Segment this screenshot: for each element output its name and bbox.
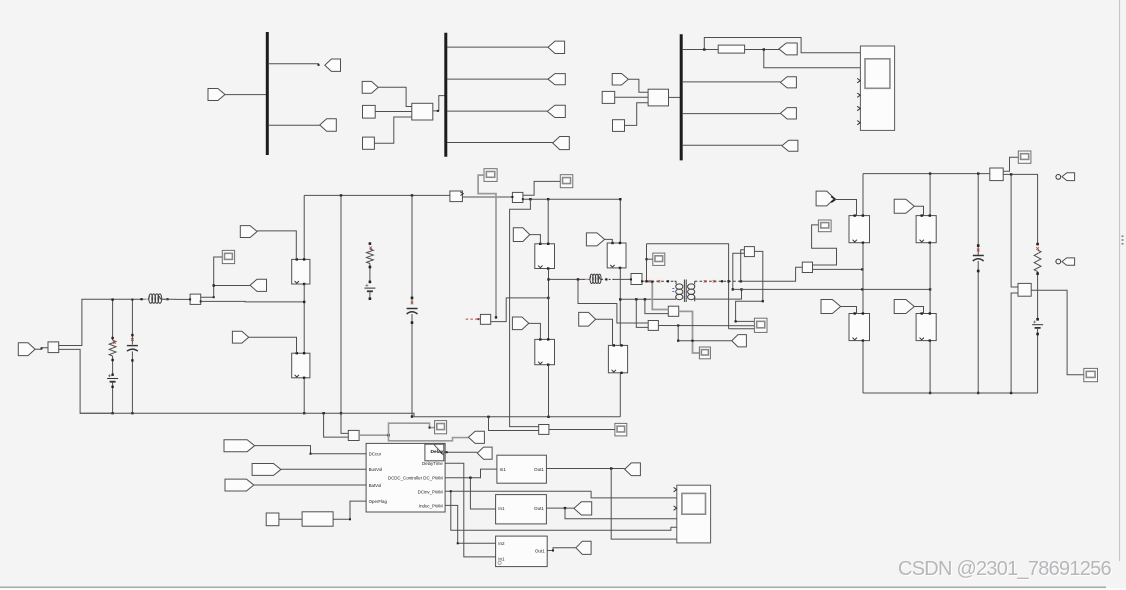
resistor R3 (load) (1034, 250, 1041, 272)
wire rail tap down to VM2 (510, 199, 539, 426)
scope U1 (top right) (857, 46, 894, 130)
wire loop to display D4 (647, 258, 653, 260)
from tag BatVol (225, 479, 254, 491)
wire bus B1 to goto tag A2 (268, 124, 320, 126)
svg-text:BatVol: BatVol (369, 483, 382, 488)
goto tag B3 (547, 105, 565, 117)
wire bottom rail to VM2 minus (489, 417, 539, 431)
unconnected block SC2b (613, 120, 625, 132)
wire CM5 signal to display D7 (1003, 157, 1018, 171)
svg-text:Out1: Out1 (534, 467, 544, 472)
display D3 (bridge current) (484, 169, 497, 182)
goto tag vprim (732, 335, 747, 347)
wire RC2 signal to display D6 (812, 225, 837, 265)
wire primary bottom to right leg (620, 298, 676, 300)
wire VM2b to phase wire (491, 297, 550, 322)
wire left leg mid (303, 284, 305, 353)
wire CM5 out to load (1003, 173, 1037, 244)
canvas bottom border (0, 586, 1106, 588)
goto tag C1 (779, 43, 797, 55)
wire gate Q5 (605, 239, 613, 243)
from tag gate Q6 (579, 312, 596, 326)
wire DC link vertical to VM1 (340, 195, 349, 433)
goto tag delay (477, 447, 492, 459)
svg-text:DCcur: DCcur (369, 451, 382, 456)
wire OperFlag to gain (279, 518, 302, 520)
bus bar B2 (444, 33, 447, 157)
battery E3 (1032, 321, 1043, 328)
wire gate Q8 (841, 307, 857, 314)
voltage measurement VM4 (648, 321, 658, 331)
wire VM3 out to display D8 (1031, 290, 1084, 375)
svg-text:DC_PWM: DC_PWM (423, 476, 443, 481)
wire from tag C-in to meas block MC (628, 79, 648, 92)
subsystem PWM1 (497, 455, 547, 483)
current measurement CM3 (630, 274, 643, 285)
goto tag B4 (553, 137, 570, 150)
wire VM3 plus (1011, 174, 1018, 287)
watermark CSDN (898, 558, 1111, 581)
svg-text:In2: In2 (498, 541, 505, 546)
wire bus B3 row2 to goto tag C2 (682, 81, 780, 83)
svg-text:DCinv_PWM: DCinv_PWM (418, 489, 443, 494)
wire bus B2 to goto tag B1 (447, 46, 548, 48)
wire primary bottom stub to VM5 (645, 299, 668, 313)
wire R1 to battery E1 (111, 356, 113, 376)
goto tag PWM1out (625, 463, 641, 476)
battery E2 floating (364, 284, 375, 291)
svg-text:In1: In1 (498, 556, 505, 561)
wire VM4 branch to goto tag (677, 326, 732, 342)
delay block (425, 444, 444, 461)
mosfet Q8 (849, 312, 870, 342)
dashed phase segment 2 (601, 278, 614, 280)
bus bar B1 (266, 32, 269, 155)
wire R2 to E2 (369, 264, 372, 284)
goto tag C2 (780, 77, 796, 88)
wire branch1 top (111, 298, 113, 340)
bus bar B3 (680, 34, 683, 160)
goto tag PWM2out (574, 502, 592, 515)
unconnected block SC1b (602, 91, 615, 103)
wire DC-link cap branch lower (411, 314, 414, 418)
wire PWM2 out to goto (546, 507, 574, 509)
wire DC_PWM branch to PWM2 (470, 478, 495, 509)
wire PWM2 out branch to scope (565, 508, 677, 519)
wire output cap branch upper (977, 174, 980, 256)
wire VM6 minus to return (732, 253, 745, 290)
wire PWM1 out to goto (546, 467, 624, 469)
display D10 (H-bridge current) (560, 175, 573, 188)
current measurement CM5 (990, 168, 1003, 181)
wire output cap branch lower (977, 261, 980, 394)
from tag gate Q1 (240, 226, 257, 238)
wire MC to bus B3 (669, 96, 682, 98)
wire BusVol to controller (281, 468, 366, 470)
wire VM2 out to display D9 (549, 429, 615, 431)
wire right-bridge left leg mid (862, 243, 864, 314)
wire RC2 out to left leg (813, 268, 864, 270)
wire CM1 signal up to display (201, 257, 223, 298)
wire R3 to battery E3 (1036, 272, 1039, 321)
svg-text:In1: In1 (498, 506, 505, 511)
svg-text:DCDC_Controller: DCDC_Controller (388, 475, 423, 480)
mosfet Q6 (608, 344, 627, 374)
wire CM2 signal to display D10 (523, 181, 560, 195)
wire G1 to controller (333, 501, 366, 520)
wire phase from left leg (549, 278, 584, 280)
from tag gate Q3 (513, 228, 530, 242)
wire VM4 out to scope U3 (658, 324, 754, 326)
output port circle 2 (1056, 259, 1061, 264)
wire bus B3 row4 to goto tag C4 (682, 144, 782, 146)
wire from tag Vdc1 to bus B1 (225, 94, 267, 96)
wire gate Q7 (835, 200, 857, 216)
wire bus B3 row1 to RLC block (682, 48, 718, 50)
from tag gate Q8 (821, 300, 841, 314)
wire right-bridge right leg mid (929, 243, 931, 314)
wire H-right leg mid (619, 268, 621, 346)
right bridge bottom rail (863, 392, 1038, 394)
from tag gate Q2 (232, 331, 248, 343)
subsystem PWM2 (496, 495, 547, 524)
voltage measurement VM3 (1018, 283, 1031, 296)
inductor L1 (140, 294, 168, 303)
goto tag A1 (325, 59, 341, 71)
wire VM1 out to goto tag vdc (389, 435, 469, 441)
wire DC_PWM to PWM1 (445, 469, 497, 479)
capacitor C1 (127, 338, 138, 351)
display D2 (DC link voltage) (435, 421, 447, 434)
svg-text:In1: In1 (500, 467, 507, 472)
wire PWM3 out to goto (547, 548, 576, 552)
from tag gate Q10 (894, 300, 914, 314)
from tag BusVol (252, 464, 281, 476)
measurement block RC2 (802, 262, 812, 272)
wire VM1 out to display D2 (389, 423, 435, 435)
wire PWM1 out branch to scope (611, 469, 677, 540)
measurement block MC (648, 89, 668, 106)
wire VM6 out to scope U3 (735, 251, 764, 322)
from tag gate Q7 (816, 191, 835, 206)
wire bus B3 row3 to goto tag C3 (682, 113, 780, 115)
svg-text:BusVol: BusVol (369, 467, 383, 472)
wire SC2b to MC (625, 103, 649, 126)
goto tag C3 (780, 108, 796, 119)
unconnected block SB2 (363, 137, 375, 149)
wire bottom rail to VM1 minus (324, 413, 349, 437)
display D5 (699, 347, 710, 359)
capacitor C2 (DC link) (407, 309, 418, 315)
wire gate Q10 (914, 307, 923, 314)
inline current block on rail (450, 191, 463, 202)
wire loop top (647, 244, 730, 329)
wire CM1 out to left leg mid (201, 300, 305, 303)
wire loop left vertical (645, 244, 647, 283)
wire bus B2 to goto tag B2 (447, 78, 548, 80)
unconnected block SB1 (363, 105, 376, 118)
voltage measurement VM6 (744, 247, 754, 257)
floating branch bottom port (369, 292, 372, 300)
wire D3 to VM2b (478, 175, 497, 319)
wire right-bridge right leg lower (929, 341, 931, 395)
wire phase to CM3 (614, 278, 631, 280)
wire from tag B-in to meas block MB (378, 87, 412, 106)
top rail of DC link (304, 194, 450, 196)
wire C1 to bottom rail (131, 351, 133, 414)
goto tag PWM3out (576, 541, 591, 554)
wire branch2 top (131, 299, 133, 345)
mosfet Q7 (849, 214, 870, 244)
right bridge top rail (863, 172, 990, 174)
wire loop into scope U3 (729, 328, 755, 330)
scope U3 (secondary) (754, 318, 767, 332)
mosfet Q9 (916, 214, 936, 244)
from tag B-in (362, 81, 378, 93)
voltage measurement VM2 (539, 425, 549, 435)
scope U2 (PWM) (674, 485, 711, 543)
bottom rail left part (80, 412, 620, 418)
svg-text:OperFlag: OperFlag (369, 499, 388, 504)
wire right-bridge right leg upper (929, 174, 931, 216)
wire DCinv_PWM to scope (445, 491, 677, 498)
mosfet Q4 (535, 338, 555, 366)
inductor L2 (leakage) (589, 274, 601, 283)
wire H-right leg upper (619, 198, 621, 243)
wire VS1- to bottom rail (59, 349, 113, 413)
wire right-bridge left leg lower (862, 341, 864, 393)
voltage measurement VM1 (348, 430, 359, 440)
wire primary bottom stub to VM4 (636, 299, 648, 327)
wire H-left leg upper (547, 199, 549, 244)
goto tag A2 (320, 119, 337, 131)
wire MB to bus B2 (433, 96, 445, 112)
svg-text:Out1: Out1 (535, 549, 545, 554)
wire loop row1 to scope in1 (704, 38, 860, 53)
voltage measurement VM5 (668, 306, 678, 316)
wire delay to goto tag (444, 451, 478, 453)
wire bus B2 to goto tag B4 (447, 142, 553, 144)
mosfet Q1 (292, 258, 310, 285)
wire RC1 to goto tag C1 (745, 48, 779, 50)
wire VS1+ to top rail (59, 299, 147, 345)
goto tag B2 (548, 74, 565, 85)
wire DCcur to controller (255, 446, 367, 455)
wire phase branch down (578, 279, 648, 323)
series RLC block RC1 (718, 45, 744, 53)
subsystem DCDC_Controller (366, 443, 445, 512)
wire gate Q3 (530, 235, 541, 244)
floating branch top port (369, 242, 372, 249)
svg-text:Out1: Out1 (534, 506, 544, 511)
display D1 (input current) (222, 250, 234, 263)
mosfet Q5 (607, 242, 626, 269)
wire load branch top (1036, 243, 1039, 250)
wire VM1 out (359, 434, 390, 437)
dashed primary wire (642, 280, 675, 283)
goto tag vdc (468, 431, 484, 443)
from tag DCcur (224, 440, 255, 452)
svg-text:DelayTime: DelayTime (422, 461, 443, 466)
wire E3 to bottom rail (1036, 329, 1039, 393)
right scrollbar line (1120, 0, 1124, 561)
wire H-left leg lower (548, 365, 550, 417)
wire VM6 plus to secondary top (741, 250, 745, 281)
from tag gate Q4 (512, 317, 528, 330)
goto tag B1 (548, 41, 565, 53)
resistor R1 (109, 340, 116, 356)
battery E1 (107, 374, 118, 381)
H-bridge top rail (523, 198, 620, 200)
wire bus B1 to goto tag A1 (268, 64, 320, 66)
white strip below border (0, 588, 1126, 590)
svg-text:Induc_PWM: Induc_PWM (419, 503, 443, 508)
goto tag icur (250, 279, 266, 291)
display D4 (primary voltage) (653, 253, 665, 265)
output port circle 1 (1056, 175, 1061, 180)
display D7 (1018, 151, 1031, 163)
wire right-bridge left leg upper (862, 174, 864, 216)
wire CM1 signal to goto tag icur (213, 284, 251, 286)
red dashed unconnected input (466, 318, 480, 320)
wire gate Q2 (249, 337, 297, 353)
from tag source-in (18, 343, 35, 356)
wire SB2 to MB (374, 117, 411, 143)
display D8 (output voltage) (1084, 368, 1098, 381)
wire VM3 minus (1011, 293, 1018, 393)
from tag C-in (612, 74, 628, 86)
wire SC1b to MC (615, 96, 648, 98)
wire gate Q1 (257, 231, 296, 260)
wire BatVol to controller (254, 484, 366, 486)
measurement block VM2b (480, 314, 490, 324)
wire bus B2 to goto tag B3 (447, 110, 547, 112)
wire VM5 out to display D5 (679, 311, 700, 353)
display D9 (H-bridge voltage) (615, 423, 627, 436)
wire L1 to current meas CM1 (162, 298, 191, 300)
wire gate Q9 (914, 206, 923, 215)
wire VM5 in1 vertical (651, 281, 668, 310)
goto tag C4 (782, 140, 798, 151)
from tag Vdc1 (208, 89, 225, 101)
mosfet Q3 (535, 243, 555, 270)
wire gate Q4 (529, 323, 541, 339)
wire secondary bottom (695, 288, 743, 299)
controlled source block VS1 (48, 342, 59, 353)
wire Induc_PWM to PWM3 (445, 505, 496, 544)
wire left leg upper (303, 195, 305, 259)
from tag gate Q5 (586, 233, 604, 246)
resistor R2 floating (367, 249, 374, 264)
dashed secondary wire (695, 280, 742, 283)
from tag gate Q9 (894, 199, 914, 213)
svg-text:Delay: Delay (431, 449, 444, 455)
current measurement CM1 (189, 294, 202, 304)
subsystem PWM3 (496, 536, 548, 567)
transformer T1 (672, 280, 695, 303)
wire source tag to source block (35, 347, 48, 349)
display D6 (818, 220, 831, 232)
wire SB1 to MB (375, 111, 412, 113)
wire H-right leg lower (619, 373, 621, 417)
top rail to CM2 (462, 196, 512, 198)
wire secondary return (733, 288, 932, 290)
dashed phase segment (583, 278, 589, 280)
current measurement CM2 (511, 192, 524, 202)
wire E1 to bottom rail (111, 383, 113, 415)
gain block G1 (302, 512, 333, 526)
wire DC-link cap branch upper (411, 195, 414, 304)
wire secondary top to RC2 (741, 267, 802, 281)
wire left leg lower (303, 378, 305, 415)
wire DelayTime to PWM3 in2 (445, 463, 496, 557)
wire DCinv_PWM branch (450, 490, 677, 530)
mosfet Q2 (292, 352, 310, 379)
mosfet Q10 (916, 312, 936, 342)
measurement block MB (412, 103, 433, 120)
constant block OperFlag (266, 513, 279, 526)
output tag O2 (1062, 258, 1075, 265)
wire H-left leg mid (547, 269, 549, 340)
output tag O1 (1062, 173, 1075, 181)
wire gate Q6 (596, 319, 613, 345)
wire junction to scope in2 (764, 50, 861, 68)
capacitor C3 (output) (973, 256, 984, 262)
